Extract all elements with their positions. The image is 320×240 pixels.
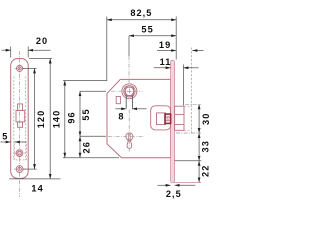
svg-text:33: 33 — [200, 140, 210, 152]
svg-text:120: 120 — [36, 110, 46, 128]
deadbolt circle — [16, 150, 23, 157]
deadbolt circle centerline dash — [14, 152, 27, 154]
deadbolt opening dashed — [14, 142, 26, 160]
svg-text:140: 140 — [52, 110, 62, 128]
svg-text:26: 26 — [81, 141, 91, 153]
latch bolt bold square — [165, 114, 171, 123]
latch tail rect — [157, 113, 166, 125]
svg-text:55: 55 — [141, 24, 153, 34]
dim 5 — [1, 141, 11, 143]
latch slot upper — [18, 104, 23, 111]
dim 55 top — [128, 36, 130, 56]
dim 20 — [10, 47, 12, 58]
svg-text:14: 14 — [31, 184, 43, 194]
dim 2,5 — [158, 184, 171, 186]
svg-text:19: 19 — [159, 40, 171, 50]
chain 30/33/22 — [185, 103, 201, 105]
svg-text:82,5: 82,5 — [130, 8, 152, 18]
dim 140 — [29, 58, 52, 60]
vertical centerline lower — [128, 110, 130, 153]
follower center cross — [127, 90, 132, 92]
hidden edge dashed left — [13, 77, 15, 161]
latch slot lower — [18, 122, 23, 127]
keyhole horizontal centerline — [108, 135, 144, 137]
latch body rounded rect — [151, 106, 171, 130]
faceplate strip side view — [171, 60, 175, 183]
vertical centerline upper — [128, 56, 130, 84]
dim 120 — [23, 67, 37, 69]
hidden edge dashed right — [25, 77, 27, 161]
screw bottom centerline dash — [14, 168, 26, 170]
svg-text:20: 20 — [36, 36, 48, 46]
dim 55 / 26 vertical — [80, 90, 106, 92]
follower circles — [122, 84, 137, 99]
dim 96 — [63, 80, 107, 82]
svg-text:5: 5 — [2, 132, 8, 142]
svg-text:96: 96 — [66, 111, 76, 123]
screw top centerline dash — [15, 67, 25, 69]
follower square hub — [125, 87, 133, 95]
follower horizontal centerline — [111, 90, 143, 92]
svg-text:22: 22 — [200, 165, 210, 177]
svg-text:30: 30 — [201, 113, 211, 125]
dim 11 — [154, 67, 171, 69]
latch opening main — [16, 110, 25, 122]
dim 82,5 — [106, 17, 108, 81]
faceplate plate outline — [11, 59, 29, 179]
case outline — [107, 79, 171, 157]
svg-text:2,5: 2,5 — [166, 189, 182, 199]
svg-text:8: 8 — [118, 111, 124, 121]
svg-text:55: 55 — [81, 108, 91, 120]
small rect left of follower — [116, 97, 120, 104]
extended latch hidden dashes — [184, 105, 192, 107]
svg-text:11: 11 — [160, 57, 172, 67]
screw hole bottom — [16, 166, 23, 173]
centerline vertical front view — [19, 51, 21, 197]
dim 8 — [115, 108, 126, 110]
spindle shaft lines — [125, 96, 127, 109]
dim 19 — [157, 50, 176, 52]
latch head beyond strip — [175, 106, 184, 130]
bolt pin circle — [166, 117, 170, 121]
keyhole — [126, 133, 133, 140]
screw hole top — [17, 65, 23, 71]
